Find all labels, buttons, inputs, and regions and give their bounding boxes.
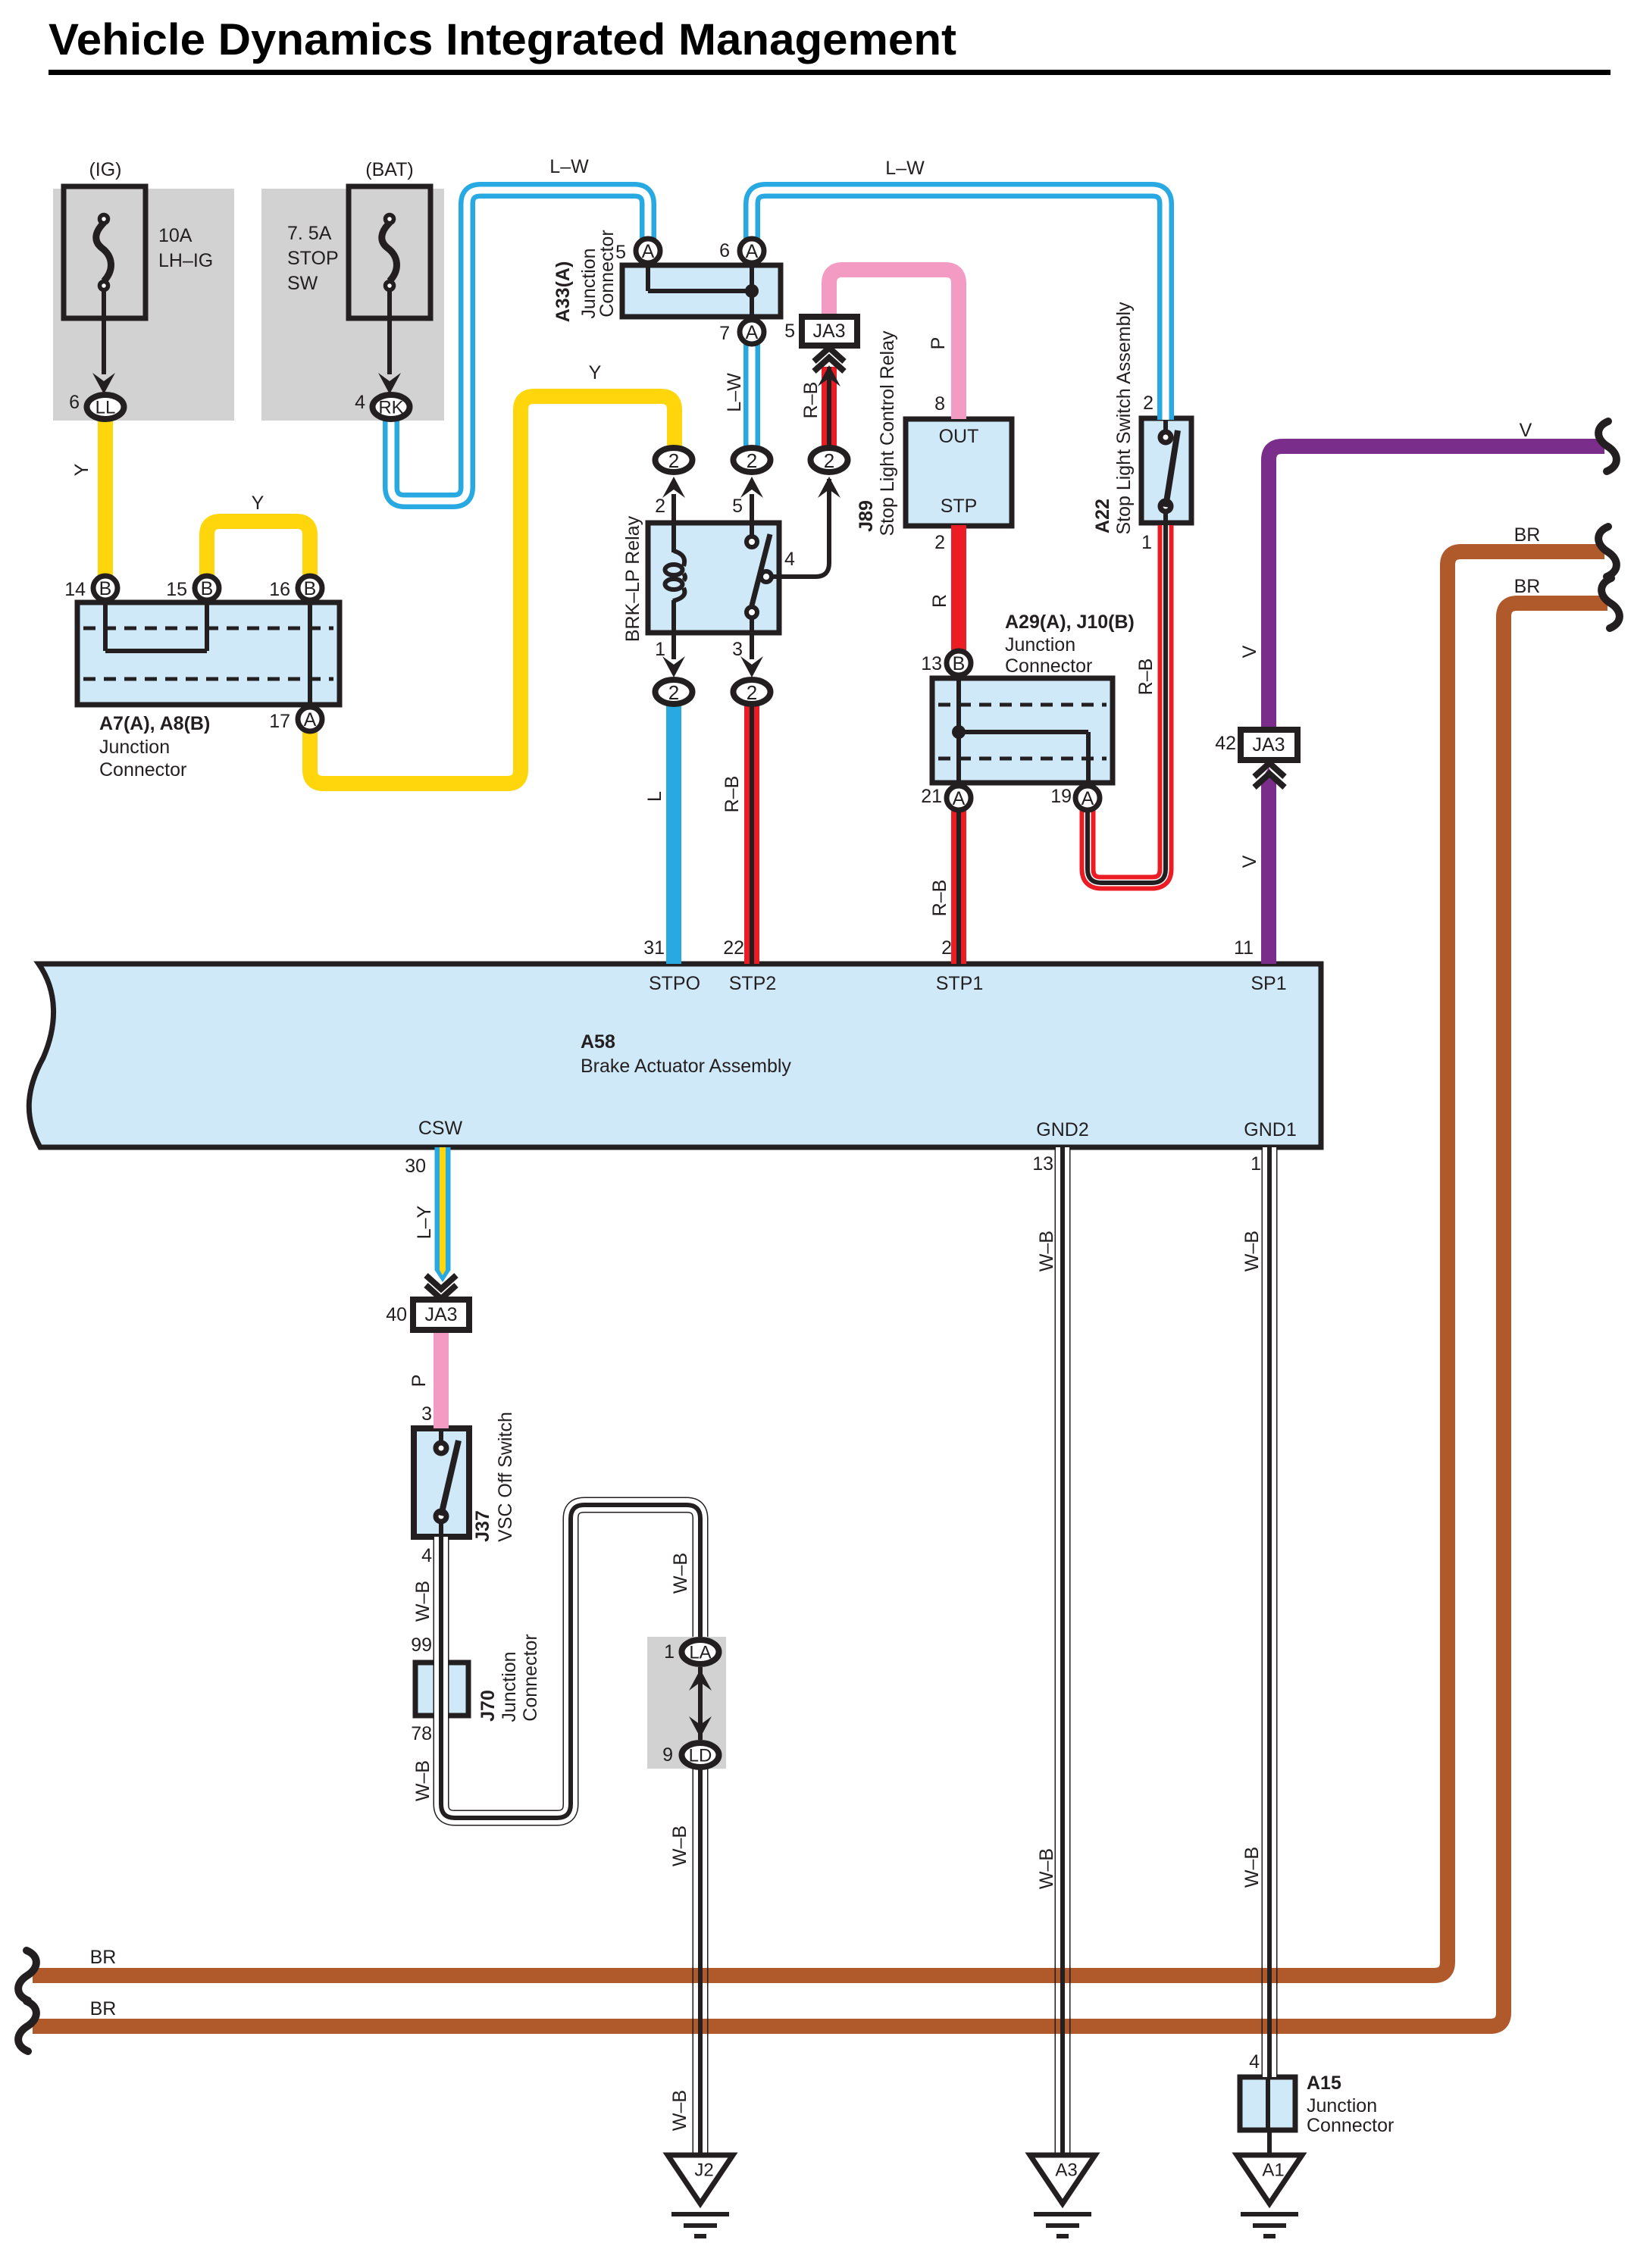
- svg-text:17: 17: [269, 711, 290, 732]
- svg-text:W–B: W–B: [412, 1760, 434, 1801]
- svg-text:STPO: STPO: [649, 973, 700, 994]
- svg-text:STOP: STOP: [287, 248, 339, 269]
- svg-text:1: 1: [1141, 532, 1152, 553]
- svg-text:W–B: W–B: [670, 1553, 691, 1594]
- svg-text:6: 6: [719, 240, 730, 261]
- svg-text:W–B: W–B: [1241, 1847, 1263, 1888]
- svg-text:B: B: [304, 578, 317, 599]
- svg-text:Stop Light Control Relay: Stop Light Control Relay: [877, 330, 898, 536]
- svg-text:W–B: W–B: [1036, 1848, 1057, 1889]
- svg-text:13: 13: [1032, 1153, 1053, 1175]
- svg-text:OUT: OUT: [939, 426, 979, 447]
- svg-text:B: B: [201, 578, 214, 599]
- svg-text:A33(A): A33(A): [552, 261, 574, 323]
- svg-text:A58: A58: [581, 1031, 615, 1053]
- svg-text:BR: BR: [1514, 524, 1541, 546]
- svg-text:5: 5: [732, 496, 743, 517]
- svg-text:A: A: [746, 241, 759, 262]
- svg-text:SP1: SP1: [1251, 973, 1286, 994]
- svg-text:Junction: Junction: [1307, 2095, 1377, 2116]
- svg-text:VSC Off Switch: VSC Off Switch: [495, 1412, 516, 1542]
- svg-text:RK: RK: [378, 398, 403, 418]
- svg-text:L–W: L–W: [724, 373, 745, 412]
- svg-text:2: 2: [655, 496, 665, 517]
- svg-text:Stop Light Switch Assembly: Stop Light Switch Assembly: [1113, 302, 1135, 535]
- svg-text:A7(A), A8(B): A7(A), A8(B): [99, 713, 210, 734]
- svg-text:Connector: Connector: [99, 759, 186, 781]
- svg-text:2: 2: [941, 937, 952, 959]
- svg-text:Junction: Junction: [499, 1651, 520, 1722]
- svg-text:STP1: STP1: [936, 973, 984, 994]
- svg-text:A29(A), J10(B): A29(A), J10(B): [1005, 612, 1135, 633]
- svg-text:A: A: [304, 709, 317, 730]
- svg-text:W–B: W–B: [1241, 1231, 1263, 1272]
- svg-text:CSW: CSW: [418, 1118, 463, 1139]
- svg-text:40: 40: [386, 1304, 407, 1325]
- svg-text:2: 2: [1143, 393, 1154, 414]
- svg-text:R–B: R–B: [722, 776, 743, 813]
- svg-text:5: 5: [784, 321, 795, 342]
- svg-text:1: 1: [664, 1641, 675, 1663]
- svg-text:2: 2: [934, 532, 945, 553]
- svg-text:LH–IG: LH–IG: [158, 250, 213, 271]
- svg-text:A22: A22: [1092, 499, 1113, 533]
- svg-text:Y: Y: [71, 463, 92, 476]
- svg-text:3: 3: [732, 639, 743, 660]
- svg-text:JA3: JA3: [1252, 734, 1285, 755]
- svg-text:W–B: W–B: [669, 2090, 690, 2131]
- svg-text:GND2: GND2: [1036, 1119, 1088, 1140]
- svg-text:JA3: JA3: [812, 321, 845, 342]
- svg-text:W–B: W–B: [1036, 1231, 1057, 1272]
- svg-text:5: 5: [615, 242, 626, 263]
- svg-text:A1: A1: [1262, 2160, 1284, 2181]
- svg-text:SW: SW: [287, 273, 318, 294]
- svg-text:BR: BR: [90, 1947, 117, 1968]
- svg-text:7: 7: [719, 323, 730, 344]
- svg-text:16: 16: [269, 579, 290, 600]
- svg-text:BR: BR: [90, 1998, 117, 2019]
- svg-text:7. 5A: 7. 5A: [287, 223, 332, 244]
- svg-text:R–B: R–B: [1135, 659, 1157, 696]
- svg-text:Y: Y: [252, 493, 265, 514]
- svg-text:8: 8: [934, 393, 945, 414]
- svg-text:Junction: Junction: [99, 737, 170, 758]
- svg-text:GND1: GND1: [1244, 1119, 1296, 1140]
- svg-text:J37: J37: [472, 1510, 493, 1542]
- svg-text:LA: LA: [689, 1643, 711, 1663]
- svg-text:Connector: Connector: [596, 230, 618, 317]
- svg-text:J2: J2: [694, 2160, 713, 2181]
- svg-text:A3: A3: [1055, 2160, 1077, 2181]
- svg-text:B: B: [99, 578, 112, 599]
- svg-text:LD: LD: [689, 1746, 712, 1766]
- svg-text:78: 78: [411, 1723, 432, 1744]
- svg-text:30: 30: [405, 1156, 426, 1177]
- svg-text:BR: BR: [1514, 576, 1541, 597]
- svg-text:W–B: W–B: [412, 1581, 434, 1622]
- svg-text:99: 99: [411, 1635, 432, 1656]
- svg-text:Y: Y: [589, 362, 602, 383]
- svg-text:L–W: L–W: [549, 156, 589, 177]
- svg-text:STP2: STP2: [729, 973, 777, 994]
- svg-text:(IG): (IG): [89, 159, 121, 180]
- svg-text:19: 19: [1050, 786, 1072, 807]
- svg-text:9: 9: [662, 1744, 673, 1766]
- svg-text:Connector: Connector: [1005, 655, 1092, 677]
- svg-text:(BAT): (BAT): [365, 159, 413, 180]
- svg-text:31: 31: [643, 937, 665, 959]
- svg-text:A: A: [953, 788, 966, 809]
- svg-text:W–B: W–B: [669, 1825, 690, 1866]
- svg-text:3: 3: [421, 1403, 432, 1425]
- svg-text:STP: STP: [941, 496, 978, 517]
- svg-text:R–B: R–B: [800, 382, 822, 419]
- svg-text:A: A: [642, 241, 655, 262]
- svg-text:Connector: Connector: [1307, 2115, 1394, 2136]
- svg-text:V: V: [1520, 420, 1532, 441]
- svg-text:Vehicle Dynamics Integrated Ma: Vehicle Dynamics Integrated Management: [49, 15, 956, 64]
- svg-text:2: 2: [824, 449, 834, 472]
- svg-text:J70: J70: [477, 1690, 499, 1722]
- svg-text:42: 42: [1215, 733, 1236, 754]
- svg-text:22: 22: [723, 937, 744, 959]
- svg-text:P: P: [409, 1375, 430, 1387]
- svg-text:A: A: [746, 322, 759, 343]
- svg-text:13: 13: [921, 653, 942, 674]
- svg-text:4: 4: [1249, 2051, 1260, 2072]
- svg-text:Connector: Connector: [520, 1634, 541, 1721]
- svg-text:2: 2: [747, 681, 757, 704]
- svg-text:Brake Actuator Assembly: Brake Actuator Assembly: [581, 1056, 791, 1077]
- svg-text:4: 4: [421, 1545, 432, 1566]
- svg-text:6: 6: [69, 392, 80, 413]
- svg-text:P: P: [928, 337, 949, 350]
- svg-text:A: A: [1082, 788, 1094, 809]
- svg-text:J89: J89: [856, 500, 877, 532]
- svg-text:B: B: [953, 653, 966, 674]
- svg-text:L: L: [644, 791, 665, 802]
- svg-text:L–W: L–W: [885, 158, 925, 179]
- svg-text:JA3: JA3: [424, 1304, 457, 1325]
- svg-text:2: 2: [747, 449, 757, 472]
- svg-text:21: 21: [921, 786, 942, 807]
- svg-text:BRK–LP Relay: BRK–LP Relay: [622, 515, 643, 642]
- svg-text:1: 1: [655, 639, 665, 660]
- svg-text:A15: A15: [1307, 2072, 1341, 2094]
- svg-text:R: R: [929, 594, 950, 608]
- svg-text:4: 4: [355, 392, 365, 413]
- svg-text:V: V: [1239, 645, 1260, 658]
- svg-text:2: 2: [668, 681, 679, 704]
- svg-text:14: 14: [64, 579, 86, 600]
- svg-text:Junction: Junction: [1005, 634, 1075, 655]
- svg-text:10A: 10A: [158, 225, 193, 246]
- svg-text:L–Y: L–Y: [414, 1205, 435, 1239]
- svg-text:LL: LL: [95, 398, 116, 418]
- svg-text:2: 2: [668, 449, 679, 472]
- svg-text:V: V: [1239, 855, 1260, 868]
- svg-text:11: 11: [1234, 937, 1254, 959]
- svg-text:R–B: R–B: [929, 880, 950, 917]
- svg-text:4: 4: [784, 549, 795, 570]
- svg-text:15: 15: [166, 579, 187, 600]
- svg-text:1: 1: [1251, 1153, 1261, 1175]
